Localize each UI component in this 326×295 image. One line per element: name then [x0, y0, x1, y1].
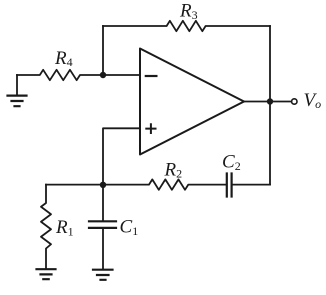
svg-text:C1: C1	[120, 217, 139, 239]
svg-text:R3: R3	[179, 1, 198, 23]
svg-text:R2: R2	[164, 160, 183, 181]
svg-text:Vo: Vo	[304, 90, 322, 111]
svg-text:R4: R4	[54, 48, 73, 69]
svg-text:R1: R1	[55, 217, 74, 239]
svg-text:C2: C2	[222, 152, 241, 174]
